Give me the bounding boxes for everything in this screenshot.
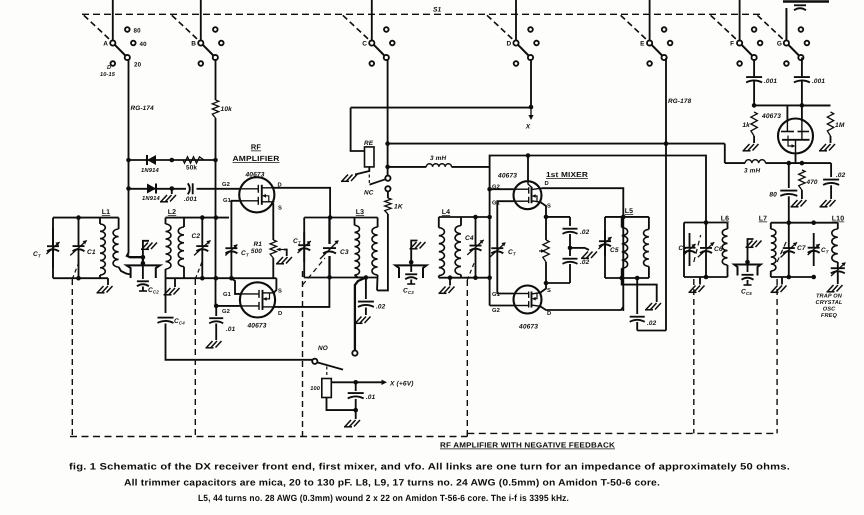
wire Q2 G2 xyxy=(217,305,240,307)
gang dashed step xyxy=(466,433,468,436)
capacitor .01 (+6V bypass) xyxy=(355,382,357,391)
capacitor .01 (G2 bypass) xyxy=(209,318,223,323)
capacitor top-right coupling xyxy=(794,5,806,10)
wire L6 top xyxy=(684,222,728,224)
relay coil 100 xyxy=(322,379,332,398)
transistor Q1 RF amp upper 40673 xyxy=(239,177,274,212)
svg-text:C3: C3 xyxy=(340,249,349,256)
capacitor C_C5 xyxy=(747,262,749,272)
ground RE xyxy=(341,175,357,182)
wire G2 to cap .01 xyxy=(215,306,217,316)
wire G wiper to cap xyxy=(785,10,787,41)
wire L3 top xyxy=(304,217,377,219)
inductor L2 link xyxy=(165,218,167,224)
svg-text:OSC: OSC xyxy=(823,307,836,313)
capacitor .02 (VFO) xyxy=(830,163,832,177)
svg-text:F: F xyxy=(730,41,734,48)
wire L7 bottom xyxy=(771,276,814,278)
inductor L7 xyxy=(770,223,772,229)
svg-text:40673: 40673 xyxy=(761,113,781,120)
wire B to L2 and G2 xyxy=(215,160,217,306)
switch S1 section D dashed linkage xyxy=(487,15,515,41)
svg-text:.02: .02 xyxy=(580,229,590,236)
svg-text:A: A xyxy=(103,41,108,48)
svg-text:C2: C2 xyxy=(192,233,201,240)
svg-text:C7: C7 xyxy=(797,245,806,252)
relay NO linkage dashed xyxy=(326,367,328,378)
inductor L6 xyxy=(727,223,729,230)
wire L5 bottom xyxy=(605,277,649,279)
wire Q1 G1 down xyxy=(231,201,239,242)
junction xyxy=(568,246,573,251)
trimmer capacitor C_T (G1 line) xyxy=(230,242,232,248)
wire Q1 drain to L3 top xyxy=(273,188,330,218)
wire Q3 G2 xyxy=(490,188,514,190)
svg-text:1K: 1K xyxy=(394,204,404,211)
ground mixer caps xyxy=(585,248,589,250)
wire L1 top xyxy=(53,217,119,219)
svg-text:L6: L6 xyxy=(721,216,729,223)
resistor 1M VFO right xyxy=(802,104,831,106)
svg-text:.001: .001 xyxy=(812,78,825,85)
svg-text:L4: L4 xyxy=(442,209,450,216)
ground link L6-L7 xyxy=(746,241,762,248)
transistor Q2 RF amp lower 40673 xyxy=(240,282,275,317)
svg-text:G1: G1 xyxy=(223,197,232,204)
switch S1 section C dashed linkage xyxy=(343,15,371,41)
ground L6 xyxy=(699,277,701,285)
svg-text:B: B xyxy=(191,41,196,48)
capacitor .02 mixer upper xyxy=(569,217,571,226)
svg-text:40673: 40673 xyxy=(497,173,517,180)
wire link ground stub xyxy=(143,241,149,257)
junction xyxy=(752,103,757,108)
relay NC arm xyxy=(370,179,386,184)
wire link L6-L7 ground stub xyxy=(748,239,754,262)
gang dashed C6 xyxy=(693,279,695,433)
wire mixer G1 vertical xyxy=(496,210,498,294)
wire feedback down to 3mH xyxy=(724,144,726,164)
wire Q2 D to C3 line xyxy=(274,277,330,307)
svg-text:40673: 40673 xyxy=(518,324,538,331)
svg-text:X (+6V): X (+6V) xyxy=(389,381,414,388)
svg-text:.001: .001 xyxy=(764,78,777,85)
junction xyxy=(529,105,534,110)
gang dashed bottom right xyxy=(467,432,776,434)
svg-text:D: D xyxy=(545,181,549,187)
wire Q4 G2 xyxy=(490,305,514,307)
wire B down to 10k xyxy=(215,59,217,100)
svg-text:3 mH: 3 mH xyxy=(744,168,760,175)
wire relay rail xyxy=(351,107,531,109)
wire L3 left xyxy=(303,218,305,278)
wire Q4 drain right xyxy=(541,307,624,311)
junction xyxy=(200,215,205,220)
svg-text:100: 100 xyxy=(310,386,321,392)
wire F down xyxy=(753,59,755,73)
ground trap xyxy=(827,285,843,292)
capacitor .02 mixer lower xyxy=(569,248,571,256)
capacitor .001 (G) xyxy=(794,77,810,82)
inductor L5 primary xyxy=(621,217,623,228)
junction xyxy=(214,215,219,220)
svg-text:FREQ: FREQ xyxy=(821,313,838,319)
svg-text:RG-174: RG-174 xyxy=(131,105,155,112)
wire to ground +6V xyxy=(355,410,357,419)
wire L5 left low xyxy=(604,256,606,278)
wire L2 top xyxy=(166,217,230,219)
ground link L3-L4 xyxy=(410,242,426,249)
diode 1N914 upper xyxy=(147,155,156,165)
ground 470 xyxy=(791,200,807,207)
junction xyxy=(328,215,333,220)
resistor 50k xyxy=(183,157,204,163)
wire L6 bottom xyxy=(684,276,728,278)
svg-text:RG-178: RG-178 xyxy=(668,98,692,105)
svg-text:1N914: 1N914 xyxy=(141,167,159,174)
wire Q3 drain to rail xyxy=(527,156,529,183)
switch S1 section E dashed linkage xyxy=(621,15,649,41)
wire L4 bottom xyxy=(439,277,490,279)
wire4 G1 xyxy=(497,293,513,295)
top rail (upper right) xyxy=(783,0,829,3)
wire 1k to ground xyxy=(753,136,755,143)
wire R1 wiper to ground xyxy=(284,250,287,257)
wire L1 bottom xyxy=(53,277,108,279)
wire pot to Q4 source xyxy=(545,262,547,283)
ground R1 xyxy=(276,257,292,264)
svg-text:AMPLIFIER: AMPLIFIER xyxy=(233,154,281,163)
junction xyxy=(385,141,390,146)
gang dashed C2 xyxy=(194,279,196,437)
wire RG-174 from A xyxy=(128,59,130,160)
capacitor .001 (F) xyxy=(746,77,762,82)
wire mixer bias vertical xyxy=(489,166,491,305)
inductor L2 secondary xyxy=(183,218,185,227)
ground +6V bypass xyxy=(344,420,360,427)
wire top feed E xyxy=(649,0,651,41)
wire Q2 G1 to rail xyxy=(231,278,240,294)
wire coil to +6V rail xyxy=(331,381,383,383)
transistor Q4 mixer lower 40673 xyxy=(514,286,542,314)
svg-text:X: X xyxy=(525,124,531,131)
svg-text:CRYSTAL: CRYSTAL xyxy=(816,300,843,306)
svg-text:3 mH: 3 mH xyxy=(430,155,446,162)
wire G down xyxy=(801,58,803,74)
wire top feed F xyxy=(739,0,741,41)
svg-text:L3: L3 xyxy=(356,209,364,216)
switch S1 section G dashed linkage xyxy=(757,15,785,41)
variable capacitor C2 xyxy=(201,218,203,246)
trimmer capacitor C_T (L1) xyxy=(52,228,54,246)
wire 470 to ground xyxy=(801,190,803,199)
wire 1K to L3 link xyxy=(377,214,388,290)
coax link shield L6-L7 xyxy=(734,265,761,276)
svg-text:S: S xyxy=(278,288,282,295)
switch S1 section F wiper and contacts xyxy=(742,45,753,56)
svg-text:C4: C4 xyxy=(465,235,474,242)
ground .02 L3 xyxy=(355,317,371,324)
wire Q5 drain xyxy=(801,105,803,121)
svg-text:D: D xyxy=(507,41,512,48)
variable capacitor C5 xyxy=(604,230,606,241)
capacitor .02 L5 tap xyxy=(636,278,638,314)
wire VFO source line xyxy=(725,162,745,164)
wire Q3 G1 xyxy=(497,201,513,210)
wire VFO injection xyxy=(637,330,666,332)
wire top feed D xyxy=(515,0,517,41)
wire feedback line xyxy=(388,143,725,145)
svg-text:NO: NO xyxy=(318,345,328,352)
relay NO contacts xyxy=(352,351,357,356)
svg-text:1st MIXER: 1st MIXER xyxy=(546,170,589,179)
wire L5 to ground elbow xyxy=(622,278,657,302)
svg-text:G1: G1 xyxy=(492,291,501,298)
resistor 10k xyxy=(212,100,218,118)
ground 1M VFO xyxy=(819,144,835,151)
switch S1 section F dashed linkage xyxy=(711,15,739,41)
ground L7 xyxy=(781,277,783,285)
svg-text:TRAP ON: TRAP ON xyxy=(816,294,843,300)
svg-text:All trimmer capacitors are mic: All trimmer capacitors are mica, 20 to 1… xyxy=(124,478,660,488)
wire L2 bottom rail xyxy=(166,277,277,279)
svg-text:C5: C5 xyxy=(610,247,619,254)
capacitor C_C2 xyxy=(142,263,144,279)
inductor 3 mH (VFO) xyxy=(745,160,765,163)
svg-text:L7: L7 xyxy=(759,216,767,223)
wire diode row lower xyxy=(129,188,187,190)
junction xyxy=(473,215,478,220)
inductor L10 xyxy=(837,223,839,229)
svg-text:.02: .02 xyxy=(836,172,846,179)
inductor 3 mH (mixer gate) xyxy=(426,164,451,167)
junction xyxy=(745,260,750,265)
svg-text:40: 40 xyxy=(140,41,148,48)
node X (+6V) arrow xyxy=(382,380,388,385)
gang dashed bottom left xyxy=(70,436,467,438)
junction xyxy=(487,187,492,192)
switch S1 section D wiper and contacts xyxy=(518,45,529,56)
wire 3mH line left xyxy=(388,166,427,168)
svg-text:40673: 40673 xyxy=(246,323,266,330)
wire Q5 gates up xyxy=(786,105,788,122)
svg-text:L10: L10 xyxy=(832,216,845,223)
wire mixer top rail xyxy=(490,156,706,223)
capacitor .02 (L3 bottom) xyxy=(365,278,367,300)
wire coil bottom to cap bottom xyxy=(327,398,356,411)
svg-text:C1: C1 xyxy=(87,249,96,256)
wire Q1 source down xyxy=(272,202,273,240)
svg-text:RE: RE xyxy=(364,140,374,147)
ground .02 VFO xyxy=(820,200,836,207)
junction xyxy=(544,215,549,220)
svg-text:D: D xyxy=(278,311,282,317)
wire X rail to relay xyxy=(351,108,365,151)
svg-text:.01: .01 xyxy=(226,326,236,333)
coax link shield L1-L2 xyxy=(127,265,160,278)
gang dashed C4 xyxy=(466,280,468,437)
svg-text:S: S xyxy=(278,205,282,212)
ground 1k VFO xyxy=(743,144,759,151)
junction xyxy=(787,220,792,225)
variable capacitor trap xyxy=(831,268,845,273)
inductor L5 secondary xyxy=(648,217,650,230)
wire link L3-L4 ground stub xyxy=(411,241,417,263)
svg-text:D: D xyxy=(547,311,551,317)
wire top feed C xyxy=(371,0,373,41)
wire cap branch bottom xyxy=(546,282,570,284)
diode 1N914 lower xyxy=(147,184,156,194)
svg-text:C: C xyxy=(362,41,367,48)
wire RG-178 from E xyxy=(665,58,667,331)
switch S1 section B dashed linkage xyxy=(172,15,200,41)
svg-text:G2: G2 xyxy=(222,308,230,315)
svg-text:80: 80 xyxy=(769,192,777,199)
pot R1 wiper xyxy=(277,249,284,251)
wire top feed A xyxy=(112,0,114,41)
svg-text:1N914: 1N914 xyxy=(142,195,160,202)
svg-text:20: 20 xyxy=(134,62,142,69)
svg-text:RF AMPLIFIER WITH NEGATIVE FEE: RF AMPLIFIER WITH NEGATIVE FEEDBACK xyxy=(440,441,616,450)
svg-text:NC: NC xyxy=(364,190,374,197)
svg-text:.02: .02 xyxy=(376,304,386,311)
wire D to X junction xyxy=(530,59,532,107)
switch S1 section B wiper and contacts xyxy=(203,45,214,56)
svg-text:.01: .01 xyxy=(366,394,376,401)
wire 1M to ground xyxy=(830,136,832,143)
svg-text:S1: S1 xyxy=(433,7,442,14)
ground L2 xyxy=(174,278,176,287)
variable capacitor C4 xyxy=(475,217,477,245)
switch S1 section A wiper and contacts xyxy=(115,45,126,56)
wire 3mH line right xyxy=(452,166,490,168)
wire L3 bottom xyxy=(304,277,376,279)
wire L4 top xyxy=(439,216,490,218)
wire RE to ground xyxy=(355,167,369,175)
relay linkage dashed xyxy=(368,169,370,184)
trimmer capacitor C_T (L6) xyxy=(689,233,691,248)
resistor 1k VFO left xyxy=(751,112,757,136)
wire Q3 source down xyxy=(541,202,547,240)
junction xyxy=(327,275,332,280)
gang dashed C7 xyxy=(776,279,778,433)
svg-text:E: E xyxy=(640,41,645,48)
inductor L1 link xyxy=(118,218,120,229)
capacitor C_C4 xyxy=(165,278,167,313)
inductor L4 link xyxy=(438,217,440,228)
junction xyxy=(664,141,669,146)
junction xyxy=(544,281,549,286)
wire link vertical xyxy=(142,257,144,263)
wire L3 bottom to NO xyxy=(355,278,366,351)
junction xyxy=(214,304,219,309)
svg-text:10k: 10k xyxy=(221,106,233,113)
svg-text:470: 470 xyxy=(806,179,818,186)
wire cap .01 to ground xyxy=(215,324,217,341)
svg-text:.001: .001 xyxy=(184,196,197,203)
wire mid node to ground xyxy=(570,247,585,249)
ground .01 xyxy=(206,341,222,348)
svg-text:.02: .02 xyxy=(647,320,657,327)
pot R1 500 in source xyxy=(270,240,276,258)
svg-text:G: G xyxy=(777,41,782,48)
wire Q4 source up xyxy=(541,283,547,293)
variable capacitor C7 xyxy=(788,223,790,248)
svg-text:S: S xyxy=(547,203,551,210)
relay NC contacts xyxy=(385,176,390,181)
wire Q1 source line to rail xyxy=(272,258,274,278)
junction xyxy=(126,186,131,191)
junction xyxy=(229,276,234,281)
inductor L3 link xyxy=(377,218,379,228)
trimmer capacitor C_T (L3) xyxy=(303,232,305,245)
wire diode row upper xyxy=(129,159,216,161)
ground L5 xyxy=(645,303,661,310)
wire Q5 source down xyxy=(795,154,797,164)
svg-text:1k: 1k xyxy=(742,122,750,129)
svg-text:80: 80 xyxy=(134,27,142,34)
gang dashed C3 xyxy=(302,271,304,437)
wire C_T to rail xyxy=(230,258,232,278)
pot wiper mixer xyxy=(539,250,544,252)
pot R source mixer xyxy=(543,240,549,262)
svg-text:L5: L5 xyxy=(625,208,633,215)
ground at diode junction xyxy=(171,189,173,195)
resistor 470 xyxy=(799,170,805,190)
coax link shield L3-L4 xyxy=(395,265,426,278)
junction xyxy=(76,215,81,220)
junction xyxy=(126,158,131,163)
switch S1 section A dashed linkage xyxy=(84,15,112,41)
node X arrow xyxy=(530,107,532,116)
inductor L1 primary xyxy=(99,218,101,224)
wire link from A xyxy=(127,253,143,257)
junction xyxy=(526,153,531,158)
ground link L1-L2 xyxy=(141,243,157,250)
svg-text:500: 500 xyxy=(251,248,262,255)
trimmer capacitor C_T (mixer) xyxy=(491,248,503,253)
wire NC to 1K xyxy=(387,191,389,198)
wire A down to link xyxy=(128,160,130,253)
svg-text:L1: L1 xyxy=(102,209,110,216)
inductor L4 secondary xyxy=(460,217,462,226)
wire top feed G xyxy=(785,8,787,41)
wire C to NC xyxy=(387,59,389,176)
junction xyxy=(409,260,414,265)
svg-text:1M: 1M xyxy=(835,122,845,129)
svg-text:R1: R1 xyxy=(254,241,263,248)
switch S1 section E wiper and contacts xyxy=(652,45,663,56)
junction xyxy=(141,255,146,260)
svg-text:L2: L2 xyxy=(168,209,176,216)
capacitor 80 (VFO) xyxy=(788,163,790,188)
junction xyxy=(353,408,358,413)
variable capacitor C6 xyxy=(705,223,707,248)
svg-text:S: S xyxy=(547,287,551,294)
relay NO arm xyxy=(317,362,343,369)
ground L4 xyxy=(449,278,451,286)
transistor Q5 VFO 40673 xyxy=(778,119,813,154)
svg-text:RF: RF xyxy=(251,143,261,152)
wire VFO top rail xyxy=(754,104,830,106)
transistor Q3 mixer upper 40673 xyxy=(514,181,542,209)
wire L7 top xyxy=(771,222,838,224)
variable capacitor C1 xyxy=(78,218,80,246)
relay coil RE xyxy=(365,147,375,167)
wire top feed B xyxy=(200,0,202,41)
svg-text:.02: .02 xyxy=(580,259,590,266)
inductor L3 primary xyxy=(354,218,356,226)
